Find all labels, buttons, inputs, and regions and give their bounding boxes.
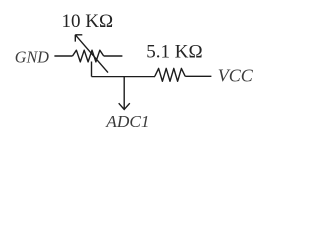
wire resistor to VCC xyxy=(185,75,211,77)
resistor 5.1 KΩ body xyxy=(155,68,185,81)
svg-text:GND: GND xyxy=(15,47,49,66)
potentiometer wiper arrow xyxy=(75,35,108,73)
wire wiper tap down xyxy=(91,62,93,77)
wire pot right stub xyxy=(104,55,123,57)
svg-text:VCC: VCC xyxy=(218,66,254,86)
svg-text:5.1 KΩ: 5.1 KΩ xyxy=(146,42,202,63)
value label 5.1 KΩ xyxy=(146,42,202,63)
value label 10 KΩ xyxy=(62,11,114,32)
wire GND to potentiometer xyxy=(54,55,72,57)
net label VCC xyxy=(218,66,254,86)
net label GND xyxy=(15,47,49,66)
arrow to ADC1 xyxy=(119,77,130,110)
svg-text:ADC1: ADC1 xyxy=(105,112,149,131)
svg-text:10 KΩ: 10 KΩ xyxy=(62,11,114,32)
wire bus to resistor xyxy=(92,76,156,78)
net label ADC1 xyxy=(105,112,149,131)
potentiometer 10 KΩ body xyxy=(73,50,104,62)
